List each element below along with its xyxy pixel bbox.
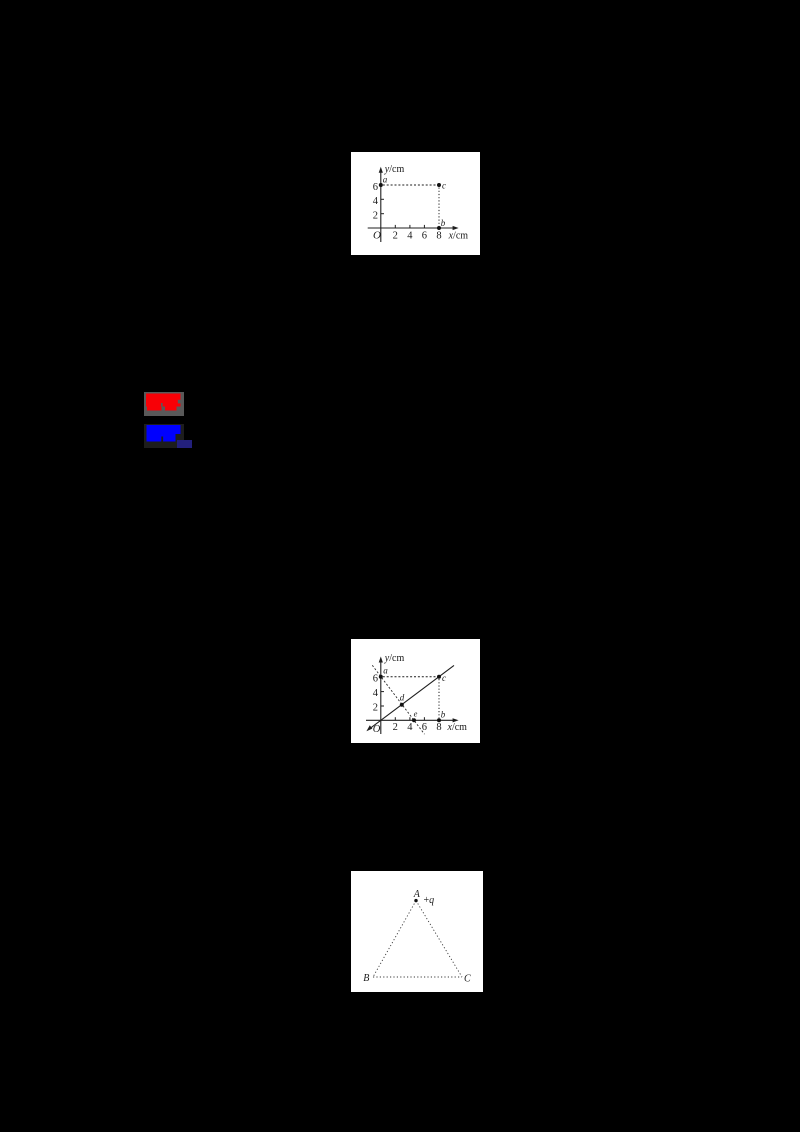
point c <box>437 183 441 187</box>
svg-text:O: O <box>373 724 381 735</box>
figure 2: graph with lines (middle) <box>351 639 480 743</box>
svg-text:d: d <box>400 693 405 703</box>
svg-text:2: 2 <box>393 230 398 241</box>
solid line through origin with arrow at lower-left <box>366 665 454 731</box>
y-axis <box>379 167 383 242</box>
svg-text:4: 4 <box>373 196 379 207</box>
x-axis ticks <box>395 717 424 720</box>
svg-text:2: 2 <box>393 722 398 733</box>
svg-text:b: b <box>441 218 446 228</box>
svg-text:b: b <box>441 710 446 720</box>
svg-text:x/cm: x/cm <box>448 230 469 241</box>
figure 1: displacement graph (top) <box>351 152 480 255</box>
y-axis ticks <box>381 692 384 706</box>
dotted line c to b <box>438 679 440 718</box>
dashed line a to c <box>383 676 437 678</box>
navy block <box>177 440 193 448</box>
svg-text:A: A <box>413 889 421 900</box>
dashed steep line through a, d, e <box>372 665 424 734</box>
figure 3: charge triangle (bottom) <box>351 871 483 992</box>
svg-text:a: a <box>383 175 388 185</box>
point c <box>437 675 441 679</box>
dotted side BC <box>373 976 462 978</box>
svg-text:c: c <box>442 181 446 191</box>
svg-text:a: a <box>383 666 388 676</box>
point d <box>400 703 404 707</box>
svg-text:2: 2 <box>373 702 378 713</box>
dotted line c to b <box>438 188 440 227</box>
analysis tag: dark box with blue CJK text <box>144 424 184 448</box>
point a <box>379 675 383 679</box>
charge dot at A <box>414 899 417 902</box>
svg-text:6: 6 <box>373 182 378 193</box>
x-axis ticks <box>395 225 424 228</box>
x-axis <box>366 718 459 722</box>
svg-text:e: e <box>414 709 418 719</box>
svg-text:4: 4 <box>407 230 413 241</box>
dotted side AB <box>373 901 416 977</box>
svg-text:+q: +q <box>424 895 435 906</box>
svg-text:8: 8 <box>436 230 441 241</box>
point a <box>379 183 383 187</box>
point e <box>412 718 416 722</box>
svg-text:2: 2 <box>373 211 378 222</box>
svg-text:6: 6 <box>373 673 378 684</box>
x-axis <box>368 226 459 230</box>
svg-text:6: 6 <box>422 722 427 733</box>
dashed line a to c <box>383 184 437 186</box>
dotted side AC <box>416 901 462 977</box>
svg-text:C: C <box>464 973 471 984</box>
svg-text:6: 6 <box>422 230 427 241</box>
svg-text:x/cm: x/cm <box>447 722 468 733</box>
svg-text:O: O <box>373 230 381 242</box>
y-axis <box>379 657 383 735</box>
svg-text:8: 8 <box>436 722 441 733</box>
point b <box>437 718 441 722</box>
answer tag: gray box with red CJK text <box>144 392 184 416</box>
svg-text:y/cm: y/cm <box>384 653 405 664</box>
y-axis ticks <box>381 199 384 213</box>
point b <box>437 226 441 230</box>
svg-text:B: B <box>363 973 369 984</box>
svg-text:4: 4 <box>373 688 379 699</box>
svg-text:c: c <box>442 673 446 683</box>
svg-text:4: 4 <box>407 722 413 733</box>
